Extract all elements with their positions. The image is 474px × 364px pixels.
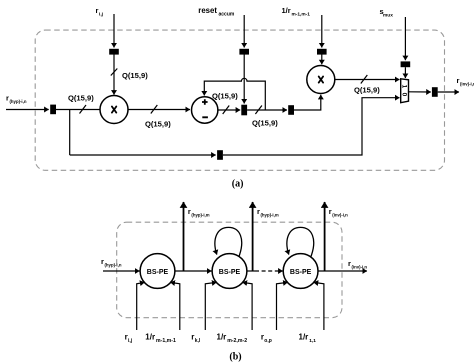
register D4: [239, 49, 249, 55]
svg-text:i,j: i,j: [128, 338, 133, 344]
svg-text:0: 0: [401, 93, 408, 97]
wire PE2 bottom input left: [205, 282, 216, 330]
svg-text:reset: reset: [198, 6, 217, 15]
svg-text:1/r: 1/r: [217, 333, 227, 342]
svg-text:Q(15,9): Q(15,9): [68, 94, 94, 103]
svg-text:Q(15,9): Q(15,9): [212, 92, 238, 101]
register D9: [217, 150, 223, 160]
node 1/r_m-1,m-1 bottom label: [145, 333, 176, 345]
wire top output 2: [252, 202, 254, 271]
svg-text:m-2,m-2: m-2,m-2: [227, 338, 247, 344]
register D1: [50, 105, 56, 115]
svg-text:mux: mux: [383, 14, 393, 19]
processing element PE2: [212, 254, 247, 289]
node r_k,l bottom label: [191, 333, 201, 345]
multiplier U3: [307, 66, 335, 94]
svg-text:(hyp)-i,m: (hyp)-i,m: [191, 212, 209, 217]
bus slash 2: [111, 69, 118, 76]
dashed boundary box (a): [35, 30, 444, 170]
wire self loop PE3: [287, 227, 314, 257]
svg-text:1/r: 1/r: [299, 333, 309, 342]
processing element PE3: [283, 254, 318, 289]
svg-text:BS-PE: BS-PE: [219, 269, 241, 276]
adder U2: [192, 97, 218, 123]
node r_(hyp)-i,n input label: [6, 94, 27, 104]
wire PE1 to PE2: [175, 270, 212, 272]
wire register D1 to multiplier U1: [56, 109, 100, 111]
wire input arrow into register D1: [6, 109, 49, 111]
wire PE3 output: [318, 270, 367, 272]
register D2: [109, 49, 119, 55]
node 1/r_1,1 bottom label: [299, 333, 317, 345]
svg-text:o,p: o,p: [264, 338, 272, 344]
bus slash 3: [151, 105, 158, 114]
node r_i,j bottom label: [125, 333, 133, 345]
processing element PE1: [140, 254, 175, 289]
svg-text:1: 1: [401, 84, 408, 88]
node r_(hyp)-i,n input label (b): [101, 257, 122, 267]
svg-text:m-1,m-1: m-1,m-1: [292, 12, 311, 18]
wire register D7 to mux select: [404, 67, 406, 78]
wire PE1 bottom input right: [170, 282, 179, 330]
bus slash 6: [361, 75, 368, 84]
svg-text:1,1: 1,1: [309, 338, 316, 344]
register D6: [317, 49, 327, 55]
svg-text:(hyp)-i,n: (hyp)-i,n: [105, 262, 122, 267]
svg-text:(inv)-i,n: (inv)-i,n: [332, 212, 348, 217]
svg-text:1/r: 1/r: [282, 6, 291, 15]
wire s_mux down into register D7: [404, 17, 406, 60]
svg-text:Q(15,9): Q(15,9): [354, 86, 380, 95]
bus slash 4: [223, 106, 230, 115]
mux M1: [401, 79, 409, 103]
multiplier U1: [100, 96, 128, 124]
wire PE2 to PE3 solid stub: [247, 270, 255, 272]
wire top output 1: [183, 202, 185, 271]
wire register D9 to mux port 0: [223, 98, 400, 155]
wire register D3 to register D5: [247, 109, 287, 111]
wire PE2 to PE3 dashed: [255, 270, 283, 272]
node 1/r_m-2,m-2 bottom label: [217, 333, 248, 345]
svg-text:k,l: k,l: [195, 338, 201, 344]
wire r_i,j down into register D2: [113, 14, 115, 48]
svg-text:Q(15,9): Q(15,9): [122, 71, 148, 80]
svg-text:1/r: 1/r: [145, 333, 155, 342]
node r_(inv)-i,n output label right: [348, 259, 367, 270]
bus slash 1: [80, 105, 87, 114]
wire mux output to register D8: [409, 91, 431, 93]
register D5: [288, 105, 294, 115]
node r_(inv)-i,n label top 3: [329, 207, 348, 217]
wire register D5 to multiplier U3: [294, 95, 321, 110]
node r_(hyp)-i,m label 2: [257, 207, 279, 217]
wire register D6 to multiplier U3 top: [321, 55, 323, 65]
register D7: [401, 61, 411, 67]
wire reset down into register D4: [243, 15, 245, 48]
wire output arrow: [438, 91, 459, 93]
wire PE1 bottom input left: [137, 282, 145, 330]
dashed boundary box (b): [117, 222, 342, 318]
svg-text:(hyp)-i,m: (hyp)-i,m: [261, 212, 279, 217]
wire PE3 bottom input right: [314, 282, 324, 330]
wire top output 3: [324, 202, 326, 271]
svg-text:BS-PE: BS-PE: [147, 269, 169, 276]
svg-text:Q(15,9): Q(15,9): [145, 120, 171, 129]
wire bottom bypass from node A into register D9: [70, 154, 216, 156]
wire PE3 bottom input left: [277, 282, 288, 330]
svg-text:(inv)-i,n: (inv)-i,n: [352, 265, 368, 270]
svg-text:(inv)-i,n: (inv)-i,n: [460, 82, 474, 87]
node r_o,p bottom label: [261, 333, 272, 345]
node r_i,j top label: [96, 6, 104, 18]
wire register D4 to register D3 reset pin: [243, 55, 245, 104]
node 1/r_m-1,m-1 top label: [282, 6, 311, 18]
svg-text:(hyp)-i,n: (hyp)-i,n: [10, 99, 27, 104]
register D8: [432, 87, 438, 97]
wire U3 to mux port 1: [335, 79, 400, 81]
wire accumulator feedback loop with hop over reset line: [204, 78, 265, 109]
wire PE2 bottom input right: [243, 282, 253, 330]
node reset_accum top label: [198, 6, 235, 18]
wire adder U2 to register D3: [217, 109, 240, 111]
node A junction to feedback: [69, 110, 71, 156]
bus slash 5: [255, 106, 262, 115]
wire self loop PE2: [215, 227, 242, 257]
wire 1/r down into register D6: [321, 15, 323, 48]
svg-text:(b): (b): [229, 352, 241, 363]
svg-text:m-1,m-1: m-1,m-1: [156, 338, 176, 344]
svg-text:i,j: i,j: [99, 12, 103, 18]
svg-text:accum: accum: [219, 12, 235, 18]
wire input into PE1: [103, 270, 140, 272]
wire U1 to adder U2: [128, 109, 190, 111]
node r_(inv)-i,n output label: [457, 76, 474, 87]
svg-text:Q(15,9): Q(15,9): [252, 119, 278, 128]
register D3: [241, 105, 247, 116]
svg-text:(a): (a): [232, 179, 244, 190]
node s_mux top label: [380, 7, 394, 19]
svg-text:BS-PE: BS-PE: [290, 269, 312, 276]
wire register D2 to multiplier U1 top: [113, 55, 115, 95]
node r_(hyp)-i,m label 1: [188, 207, 210, 217]
